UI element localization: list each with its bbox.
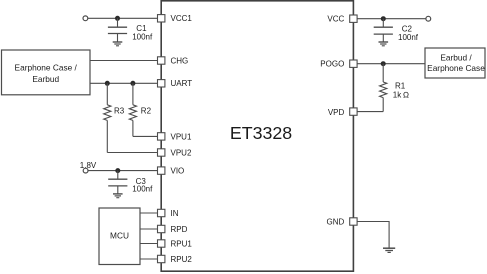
pin RPD [158, 225, 188, 234]
terminal circle 1.8V input [83, 168, 88, 173]
wire POGO net [357, 63, 425, 65]
pin UART [158, 79, 193, 88]
node junction UART/R2 [130, 81, 135, 86]
ground (C2) [379, 42, 389, 46]
svg-text:VCC: VCC [327, 15, 344, 24]
ground (C3) [113, 194, 123, 198]
svg-text:Earphone Case /: Earphone Case / [15, 62, 78, 72]
svg-text:RPU2: RPU2 [171, 255, 193, 264]
wire MCU to RPU2 [140, 258, 158, 260]
svg-text:GND: GND [327, 217, 345, 226]
svg-text:Earphone Case: Earphone Case [427, 63, 485, 73]
svg-text:Earbud: Earbud [32, 74, 59, 84]
capacitor C3 [108, 171, 127, 194]
node junction C2/VCC [381, 16, 386, 21]
pin VCC1 [158, 14, 193, 23]
svg-text:R3: R3 [114, 106, 125, 115]
node junction C1/VCC1 [115, 16, 120, 21]
capacitor C2 [374, 19, 393, 42]
wire MCU to RPD [140, 228, 158, 230]
wire VIO net [88, 170, 158, 172]
ground (GND pin) [383, 248, 395, 252]
svg-text:UART: UART [171, 79, 193, 88]
svg-text:VIO: VIO [171, 167, 185, 176]
wire R3 to VPU2 [107, 152, 158, 154]
wire R1 to VPD [357, 111, 383, 113]
wire VCC1 net [88, 17, 158, 19]
capacitor C1 [108, 18, 127, 42]
MCU block [99, 208, 140, 265]
resistor R2 [129, 83, 136, 136]
Earbud / Earphone Case block [425, 48, 485, 78]
svg-text:CHG: CHG [171, 56, 189, 65]
terminal circle VCC1 input [83, 16, 88, 21]
svg-text:ET3328: ET3328 [230, 123, 292, 143]
wire MCU to RPU1 [140, 243, 158, 245]
svg-text:MCU: MCU [110, 231, 129, 241]
value label R1 1kOhm [393, 82, 409, 100]
pin VPU1 [158, 132, 192, 141]
pin POGO [320, 59, 357, 68]
svg-text:100nf: 100nf [132, 33, 153, 42]
node junction UART/R3 [105, 81, 110, 86]
svg-text:100nf: 100nf [132, 185, 153, 194]
svg-text:RPD: RPD [171, 225, 188, 234]
pin RPU1 [158, 239, 193, 248]
svg-text:POGO: POGO [320, 59, 344, 68]
pin GND [327, 217, 358, 226]
value label C1 100nf [132, 24, 153, 42]
wire CHG net [90, 60, 158, 62]
value label C3 100nf [132, 177, 153, 194]
pin VIO [158, 167, 185, 176]
node junction C3/VIO [115, 168, 120, 173]
pin RPU2 [158, 255, 193, 264]
pin VPU2 [158, 148, 192, 157]
svg-text:VPU1: VPU1 [171, 132, 192, 141]
resistor R3 [104, 83, 111, 152]
resistor R1 [380, 64, 387, 112]
pin CHG [158, 56, 189, 65]
value label C2 100nf [398, 25, 419, 43]
ground (C1) [113, 42, 123, 46]
terminal circle VCC input [426, 16, 431, 21]
wire MCU to IN [140, 212, 158, 214]
svg-text:100nf: 100nf [398, 33, 419, 42]
IC U1 body ET3328 [161, 1, 353, 271]
svg-text:RPU1: RPU1 [171, 239, 193, 248]
Earphone Case / Earbud block [2, 50, 91, 95]
svg-text:1,8V: 1,8V [80, 161, 97, 170]
wire VCC net [357, 18, 426, 20]
pin IN [158, 209, 179, 218]
svg-text:Earbud /: Earbud / [440, 52, 472, 62]
pin VCC [327, 15, 357, 24]
wire GND net [357, 222, 389, 249]
pin VPD [328, 108, 357, 117]
svg-text:VCC1: VCC1 [171, 14, 193, 23]
node junction POGO/R1 [381, 61, 386, 66]
wire UART net [90, 82, 158, 84]
svg-text:VPD: VPD [328, 108, 345, 117]
wire R2 to VPU1 [133, 135, 158, 137]
svg-text:IN: IN [171, 209, 179, 218]
svg-text:R2: R2 [141, 106, 152, 115]
svg-text:1k Ω: 1k Ω [393, 90, 409, 99]
svg-text:VPU2: VPU2 [171, 148, 192, 157]
